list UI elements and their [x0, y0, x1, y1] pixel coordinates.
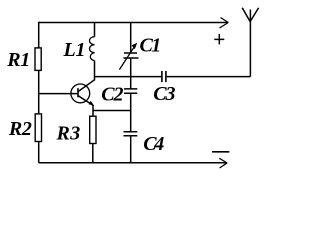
svg-text:C2: C2 — [101, 83, 123, 105]
svg-text:L1: L1 — [63, 39, 86, 61]
svg-text:R1: R1 — [6, 49, 30, 71]
svg-text:R2: R2 — [8, 118, 32, 140]
svg-text:C4: C4 — [143, 133, 164, 155]
svg-text:C1: C1 — [140, 35, 162, 57]
svg-text:R3: R3 — [56, 123, 81, 145]
svg-text:C3: C3 — [153, 83, 175, 105]
